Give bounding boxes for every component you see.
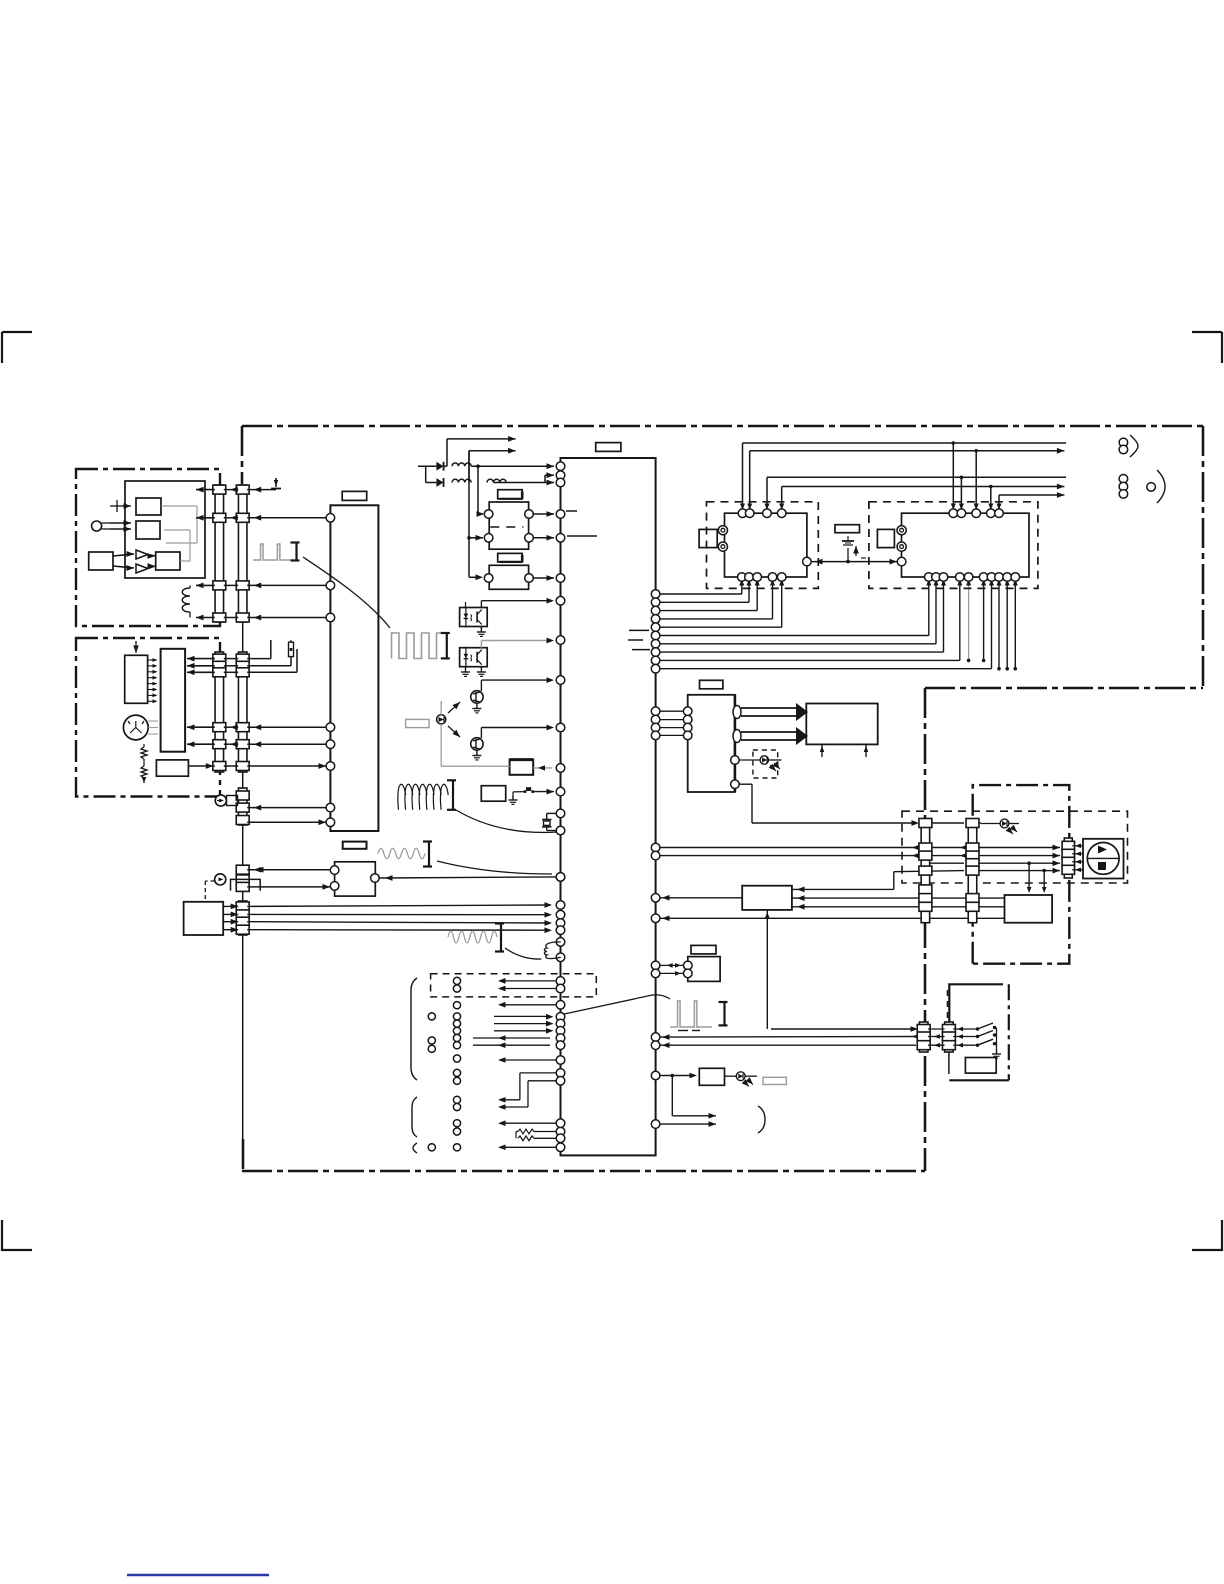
wire 469 to K2 pinL	[469, 576, 479, 578]
pointer diagonal to glyph	[562, 995, 651, 1014]
cyl left bottom pin	[738, 573, 747, 582]
servo IC pin	[326, 803, 335, 812]
relay K2 pin L	[484, 574, 493, 583]
loading driver B17	[806, 704, 877, 745]
wire to pin3	[545, 482, 554, 484]
wire row 855	[651, 851, 660, 860]
Q2 emitter ground	[476, 751, 478, 756]
B16 pin pair wire	[651, 731, 660, 740]
osc pin wires	[651, 961, 660, 970]
switch box D7	[949, 984, 1003, 1022]
servo IC pin	[326, 740, 335, 749]
sub board block	[184, 902, 224, 935]
wire LED chain to B8	[441, 765, 509, 767]
cyl right top pin	[995, 509, 1004, 518]
bus wire 3	[651, 606, 660, 615]
cyl right bottom pin	[1011, 573, 1020, 582]
servo IC pin	[326, 581, 335, 590]
block B8 regulator	[510, 760, 534, 775]
long wire L1	[743, 442, 954, 444]
choke L1a	[452, 463, 471, 466]
B16 pin low	[731, 780, 740, 789]
board entry marker	[275, 478, 277, 487]
main board boundary mid vertical edge	[924, 688, 927, 1171]
wire PC2 to IC pin639	[480, 641, 482, 648]
IC internal stub 536	[567, 535, 597, 537]
key dashed link	[205, 880, 214, 882]
waveform glyph pulse G1	[253, 544, 295, 560]
leader curve G1	[303, 557, 390, 628]
LED D4 dashed box	[753, 750, 778, 778]
mode switch leaf 2	[953, 1036, 976, 1038]
wire IC to B19 918	[651, 914, 660, 923]
relay K1 outline	[489, 502, 528, 549]
coil spring symbol	[398, 784, 406, 810]
remote sensor eye	[215, 795, 226, 806]
relay K1 pin L1	[484, 510, 493, 519]
cyl left bottom pin	[745, 573, 754, 582]
cyl right in pin	[897, 557, 906, 566]
block B9 reel	[481, 786, 505, 802]
relay K2 label	[498, 553, 523, 562]
row 1030	[556, 1027, 565, 1036]
connector CN10	[919, 1022, 928, 1052]
relay K1 pin R2	[525, 534, 534, 543]
cyl right bottom pin	[987, 573, 996, 582]
connector CN3 lower	[215, 652, 224, 772]
cyl right top pin	[957, 509, 966, 518]
cyl left top pin	[777, 509, 786, 518]
connector CN9	[968, 820, 977, 923]
right conn triple	[1119, 475, 1128, 484]
relay K1 label	[498, 490, 523, 499]
cyl left side pins	[718, 526, 727, 535]
wire row 822	[247, 821, 330, 823]
mode switch leaf 1	[953, 1028, 976, 1030]
loading block B16	[688, 695, 735, 792]
sensor unit box outline	[76, 469, 220, 626]
connector stem 891	[242, 891, 244, 901]
main board boundary left edge top	[241, 426, 244, 484]
row 1005	[556, 1001, 565, 1010]
LED D3 label	[406, 719, 430, 727]
wire inductor top	[189, 585, 191, 588]
cylinder block right	[902, 513, 1030, 577]
cyl left top pin	[763, 509, 772, 518]
mid label	[835, 525, 860, 533]
wire row 1124	[651, 1120, 660, 1129]
resistor R101	[141, 747, 147, 759]
leader curve G3	[437, 861, 552, 874]
wire IC to B18	[651, 894, 660, 903]
bus wire 5	[651, 623, 660, 632]
wire row 766	[188, 765, 214, 767]
servo IC label	[342, 491, 367, 500]
wire 469 to K1 pinL2	[469, 537, 483, 539]
relay K1 contact dash	[490, 526, 523, 528]
row 980	[556, 977, 565, 986]
long wire L4	[782, 486, 991, 488]
wires S10 to motor	[1072, 845, 1083, 847]
connector stem upper	[242, 622, 244, 652]
bus wire 8	[651, 648, 660, 657]
wire amps to A1d	[148, 555, 155, 557]
cyl right bottom pin	[964, 573, 973, 582]
bus wire to IC 905	[247, 905, 550, 906]
row 1147	[556, 1143, 565, 1152]
servo IC pin	[326, 818, 335, 827]
connector stem bottom	[242, 935, 244, 1139]
wire row 727	[224, 726, 238, 728]
cyl left top pin	[745, 509, 754, 518]
cyl right square	[877, 529, 894, 547]
row 1060	[556, 1056, 565, 1065]
leader curve L1 to crystal	[456, 810, 557, 832]
connector CN5	[238, 788, 247, 825]
capstan assy box D6	[973, 785, 1070, 964]
mode key circle	[215, 874, 226, 885]
B16 pin pair wire	[651, 707, 660, 716]
cyl right bottom pin	[925, 573, 934, 582]
wire B18 row 906	[792, 906, 1005, 908]
block A1b	[136, 521, 160, 539]
pickup coil C2	[544, 942, 560, 959]
wire row 617	[196, 617, 215, 619]
capstan motor M2	[1083, 839, 1124, 879]
bus branch 968	[968, 577, 970, 660]
wire row 489	[196, 489, 215, 491]
wire B12 pin2	[223, 913, 238, 915]
cyl right bottom pin	[979, 573, 988, 582]
servo IC pin	[326, 723, 335, 732]
crystal X1	[547, 812, 556, 814]
row 1023	[556, 1019, 565, 1028]
wire row 1029	[771, 1028, 916, 1030]
Q2 collector wire	[480, 728, 482, 739]
junction vertical 478	[477, 466, 479, 513]
cylinder block left	[725, 513, 807, 577]
crop mark bottom-left	[1, 1220, 3, 1251]
wire row 517	[196, 517, 215, 519]
wire B18 row 889	[792, 888, 894, 890]
double arrow b	[741, 731, 797, 733]
B16 right pin b	[733, 730, 741, 743]
wire A1a loop	[110, 505, 117, 507]
bracket right rows	[758, 1106, 765, 1133]
cyl left bottom pin	[768, 573, 777, 582]
cyl right top pin	[972, 509, 981, 518]
right conn bracket2	[1157, 470, 1165, 503]
bus wire 7	[651, 640, 660, 649]
servo IC pin	[326, 762, 335, 771]
LED emission arrows	[448, 702, 460, 713]
cyl right bottom pin	[995, 573, 1004, 582]
bus wire 10	[651, 664, 660, 673]
syscon IC label	[596, 443, 621, 452]
jog 893	[893, 872, 895, 890]
wire B12 pin3	[223, 921, 238, 923]
connector CN6	[238, 866, 247, 891]
cyl left out pin	[803, 557, 812, 566]
relay K2 pin R	[525, 574, 534, 583]
connector stem mid	[242, 772, 244, 788]
wire to amp B22	[651, 1071, 660, 1080]
connector CN11	[945, 1022, 954, 1052]
wire B16 to bus823	[739, 783, 752, 785]
motor driver B19	[1005, 895, 1053, 923]
fuse F1	[289, 642, 294, 656]
syscon pin	[556, 873, 565, 882]
arrow line top1	[447, 438, 516, 440]
choke L1b	[452, 479, 471, 482]
bus wire 9	[651, 656, 660, 665]
wire K1R2 to IC	[533, 537, 554, 539]
row 1080 jog	[556, 1077, 565, 1086]
main board boundary top edge	[242, 425, 1203, 428]
wire row 665	[187, 665, 215, 667]
osc label	[691, 945, 716, 954]
optocoupler PC2	[460, 648, 488, 667]
mode switch leaf 3	[953, 1044, 976, 1046]
buffer amp A3	[136, 564, 148, 573]
waveform glyph pulse G5	[670, 1001, 712, 1027]
wire between cyl pins	[811, 561, 842, 563]
inductor L101 below module	[182, 588, 190, 612]
wire 478 to K1 pinL1	[478, 513, 483, 516]
cyl left top pin	[738, 509, 747, 518]
PC2 grounds	[465, 667, 467, 672]
waveform glyph sine G4	[448, 931, 497, 943]
connector CN4 lower	[238, 652, 247, 772]
mic input wires	[102, 522, 110, 524]
supply input wire	[418, 465, 436, 467]
capstan motor M1	[123, 715, 148, 740]
drive unit box outline	[76, 638, 220, 797]
cyl left square	[699, 529, 717, 547]
block A1d	[156, 552, 180, 570]
choke L1c	[487, 479, 506, 482]
syscon pin	[556, 926, 565, 935]
bracket big	[411, 978, 417, 1080]
relay K1 pin L2	[484, 534, 493, 543]
diode D1	[436, 462, 443, 471]
waveform glyph sine G3	[378, 848, 425, 859]
B16 pin pair wire	[651, 715, 660, 724]
IC internal stub 511	[566, 510, 577, 512]
right conn single	[1147, 483, 1156, 492]
feedback wire A1d to A1b	[180, 560, 190, 562]
syscon pin	[556, 910, 565, 919]
wire row 585	[196, 584, 215, 586]
block A1c	[89, 552, 113, 570]
wire B8 to IC pin767	[533, 767, 552, 769]
bus branch 1007	[1006, 577, 1008, 669]
bracket mid	[412, 1097, 417, 1137]
buffer amp A2	[136, 550, 148, 559]
blue footer rule	[127, 1574, 269, 1576]
resistor R102	[141, 766, 147, 778]
wire row 672	[187, 671, 215, 673]
connector stem low	[242, 825, 244, 866]
cylinder board box left	[707, 502, 819, 589]
bracket around CN6	[231, 879, 261, 890]
wire row 658	[187, 658, 215, 660]
right conn pair	[1119, 438, 1128, 447]
relay K2 outline	[489, 565, 528, 589]
wire K2R to IC	[533, 577, 554, 579]
wire B12 pin4	[223, 929, 238, 931]
driver IC B2b	[161, 649, 186, 752]
dashed box D8	[431, 974, 597, 997]
cyl right bottom pin	[939, 573, 948, 582]
servo IC pin	[326, 514, 335, 523]
B18 bottom vertical	[766, 910, 768, 1029]
connector CN2 upper	[238, 485, 247, 622]
cyl left bottom pin	[777, 573, 786, 582]
cyl right bottom pin	[1003, 573, 1012, 582]
long wire L3	[767, 476, 961, 478]
osc block B23	[688, 957, 720, 982]
motor conn strip S10	[1064, 838, 1072, 878]
bus wire to IC 914	[247, 913, 550, 915]
PC1 anode stub	[465, 602, 467, 608]
main board boundary mid horizontal edge	[925, 687, 1203, 690]
main board boundary left edge bottom	[242, 1139, 245, 1171]
bus branch 1015	[1014, 577, 1016, 669]
syscon pin	[556, 919, 565, 928]
connector CN7	[238, 901, 247, 935]
bracket small	[413, 1143, 417, 1153]
LED D6 indicator	[725, 1075, 737, 1077]
switch common rail	[996, 1028, 998, 1050]
wire K1R1 to IC	[533, 513, 554, 515]
waveform glyph square G2	[392, 633, 445, 659]
LED D4	[739, 759, 760, 761]
photo transistor Q2	[471, 738, 483, 750]
wire row 886	[247, 886, 334, 888]
switch box stem	[948, 984, 950, 1022]
bus wire 2	[651, 598, 660, 607]
wire row 870	[894, 871, 964, 872]
wire row 1036	[651, 1033, 660, 1042]
row 1016	[556, 1013, 565, 1022]
LED feed vertical	[440, 701, 442, 715]
branch down arrow	[671, 1076, 673, 1116]
wire B12 pin1	[223, 905, 238, 907]
cyl right top pin	[987, 509, 996, 518]
row 1038	[556, 1034, 565, 1043]
servo IC block	[330, 505, 378, 831]
wire PC1 to IC pin600	[480, 601, 482, 608]
amp block B22	[699, 1068, 724, 1085]
wire row 863	[930, 862, 964, 864]
B16 pin LED	[731, 756, 740, 765]
wire A1c to amps	[113, 554, 134, 556]
bus wire 6	[651, 631, 660, 640]
syscon pin	[556, 953, 565, 962]
cyl right bottom pin	[932, 573, 941, 582]
long wire L2	[750, 450, 977, 452]
wire row 847	[651, 843, 660, 852]
photo transistor Q1	[471, 691, 483, 703]
sensor block B2a	[125, 655, 148, 703]
crop mark bottom-right	[1221, 1220, 1223, 1251]
switch block B21	[965, 1058, 996, 1074]
module A1 outline	[125, 481, 205, 578]
feedback wire A1a	[161, 505, 197, 507]
vertical 469	[468, 451, 470, 578]
arrow into B2a	[135, 641, 137, 653]
wires motor to B2b	[148, 720, 158, 722]
bus wire 1	[651, 590, 660, 599]
row 1045	[556, 1041, 565, 1050]
wire choke to pin1	[471, 465, 554, 467]
row 988	[556, 984, 565, 993]
wire B18 row 898	[792, 897, 1005, 899]
PC1 emitter ground	[480, 627, 482, 633]
supply branch vertical 1	[446, 439, 448, 466]
supply branch vertical 2	[468, 451, 470, 483]
LED D5 indicator	[981, 823, 1000, 825]
double arrow a	[741, 707, 797, 709]
cyl right bottom pin	[956, 573, 965, 582]
B17 bottom arrows	[821, 744, 823, 757]
wire row 744	[224, 743, 238, 745]
loading block label	[700, 680, 723, 689]
optocoupler PC1	[460, 608, 488, 627]
relay K1 pin R1	[525, 510, 534, 519]
remote sensor stub	[227, 796, 238, 806]
LED D3	[437, 715, 446, 724]
switch SW1	[512, 795, 514, 800]
syscon IC block	[561, 458, 656, 1155]
cyl right side pins	[897, 526, 906, 535]
connector CN1 upper	[215, 485, 224, 622]
wire choke2 to jog	[494, 482, 546, 484]
syscon pin	[556, 901, 565, 910]
block B2c	[156, 760, 188, 776]
block A1a	[136, 498, 161, 515]
connector CN8	[921, 820, 930, 923]
syscon pin	[556, 938, 565, 947]
Q1 emitter ground	[476, 704, 478, 709]
bus wire to IC 930	[247, 929, 550, 932]
B16 right pin a	[733, 706, 741, 719]
wire B11 to IC	[556, 873, 565, 882]
wires B2a to B2b	[148, 659, 156, 661]
main board boundary bottom edge	[242, 1170, 925, 1173]
deck connector box D5	[902, 811, 1128, 883]
jog up to pin2	[544, 475, 546, 482]
wires CN10-CN11	[928, 1028, 945, 1030]
crop mark top-right	[1192, 331, 1222, 333]
Q1 collector wire	[480, 680, 482, 691]
coil bracket	[447, 779, 456, 781]
leader curve G4	[505, 948, 541, 959]
mid cap symbol	[842, 540, 854, 542]
mecha block B18	[742, 886, 792, 910]
main board boundary right edge	[1202, 426, 1205, 688]
bus wire 4	[651, 615, 660, 624]
resistor R103	[556, 1127, 565, 1136]
wire row 807	[247, 807, 330, 809]
cyl right top pin	[949, 509, 958, 518]
block B11	[335, 862, 376, 896]
syscon top stub	[468, 450, 470, 452]
wire row 869	[247, 869, 334, 871]
block B11 label	[343, 842, 367, 849]
B11 pins	[330, 866, 339, 875]
